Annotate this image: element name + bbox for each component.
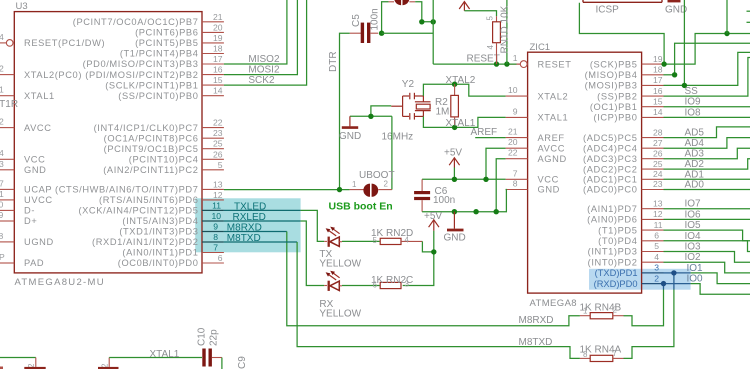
- wire TXLED (teal in band, green after): [224, 209, 301, 211]
- svg-text:22: 22: [213, 118, 223, 128]
- U3 right pin stubs: [202, 22, 224, 263]
- svg-text:AVCC: AVCC: [538, 143, 566, 153]
- svg-text:P: P: [0, 252, 5, 262]
- svg-text:8: 8: [0, 231, 4, 241]
- svg-text:XTAL1: XTAL1: [538, 113, 569, 123]
- svg-text:IO3: IO3: [685, 242, 702, 253]
- svg-text:AVCC: AVCC: [24, 123, 52, 133]
- svg-text:SS: SS: [685, 86, 699, 97]
- svg-text:6: 6: [218, 253, 223, 263]
- svg-text:C10: C10: [197, 327, 208, 346]
- crystal Y2: [391, 93, 431, 120]
- wire XTAL2 rail: [423, 84, 505, 96]
- wire AD0: [664, 189, 750, 191]
- svg-text:XTAL2: XTAL2: [446, 75, 476, 86]
- svg-text:4: 4: [486, 45, 495, 50]
- junction SCK top branch: [724, 31, 729, 36]
- svg-text:13: 13: [213, 179, 223, 189]
- junction AGND on rail: [494, 209, 499, 214]
- svg-text:1: 1: [0, 85, 4, 95]
- wire +5V drop to RX row: [403, 231, 434, 286]
- svg-text:XTAL1: XTAL1: [24, 91, 55, 101]
- svg-text:TXLED: TXLED: [234, 201, 266, 212]
- wire AREF: [475, 137, 505, 139]
- svg-text:4: 4: [405, 236, 410, 245]
- svg-text:(PDI/MOSI/PCINT2)PB2: (PDI/MOSI/PCINT2)PB2: [85, 70, 198, 80]
- svg-text:IO4: IO4: [685, 231, 702, 242]
- svg-text:4: 4: [0, 148, 4, 158]
- ZIC1 right pin numbers: [653, 54, 663, 262]
- junction PD0: [661, 281, 666, 286]
- wire XTAL1 bottom left (to cut crystal Y1): [0, 357, 36, 359]
- svg-text:8: 8: [213, 232, 218, 242]
- wire IO8: [664, 116, 750, 118]
- wire nub right edge upper: [747, 10, 750, 12]
- svg-text:23: 23: [653, 179, 663, 189]
- cut component body (bottom edge left): [24, 367, 45, 369]
- ZIC1 left pin names: [538, 59, 572, 194]
- svg-text:1: 1: [352, 180, 357, 189]
- wire MOSI: top edge to ZIC1 pin17 and right edge: [664, 0, 750, 85]
- svg-text:21: 21: [213, 12, 223, 22]
- svg-text:(INT5/AIN3)PD4: (INT5/AIN3)PD4: [122, 216, 198, 226]
- svg-text:U3: U3: [16, 1, 28, 12]
- svg-text:7: 7: [613, 349, 618, 358]
- svg-text:(AIN2/PCINT11)PC2: (AIN2/PCINT11)PC2: [103, 165, 198, 175]
- solder jumper RESET-EN (cut off at top): [389, 0, 416, 5]
- svg-text:14: 14: [213, 86, 223, 96]
- pin of cut component (crystal Y1 pin 2): [35, 358, 37, 367]
- svg-text:2: 2: [613, 305, 618, 314]
- svg-text:AD3: AD3: [685, 149, 705, 160]
- net labels IO1 IO0 (highlighted zone): [687, 263, 704, 285]
- svg-text:(SS/PCINT0)PB0: (SS/PCINT0)PB0: [118, 91, 198, 101]
- svg-text:2: 2: [0, 64, 4, 74]
- wire M8TXD (U3 side): [224, 241, 297, 243]
- svg-text:22p: 22p: [209, 329, 220, 346]
- svg-text:GND: GND: [24, 165, 46, 175]
- resistor RN4A: [580, 355, 624, 361]
- wire IO5: [664, 230, 750, 241]
- junction RESET vertical: [431, 19, 436, 24]
- junction RN1D bottom on RESET wire: [494, 61, 499, 66]
- svg-text:ZIC1: ZIC1: [530, 42, 551, 53]
- power +5V symbol (LED circuit): [429, 220, 439, 231]
- svg-text:DTR: DTR: [328, 51, 339, 72]
- svg-text:(OC1A/PCINT8)PC6: (OC1A/PCINT8)PC6: [104, 133, 199, 143]
- resistor RN4B: [580, 313, 624, 319]
- svg-text:17: 17: [213, 54, 223, 64]
- wire C10 right leg down: [221, 358, 223, 369]
- U3 highlighted pin numbers 11,10,9,8: [211, 200, 221, 252]
- svg-text:(PCINT9/OC1B)PC5: (PCINT9/OC1B)PC5: [104, 144, 199, 154]
- wire AD4: [664, 138, 750, 149]
- svg-text:SCK2: SCK2: [248, 75, 275, 86]
- svg-text:ATMEGA8: ATMEGA8: [530, 298, 578, 309]
- U3 right pin names: [55, 17, 198, 268]
- capacitor C10: [202, 349, 222, 367]
- wire XTAL1 bottom to C10: [109, 357, 202, 359]
- svg-text:(OC0B/INT0)PD0: (OC0B/INT0)PD0: [118, 258, 199, 268]
- svg-text:(PCINT7/OC0A/OC1C)PB7: (PCINT7/OC0A/OC1C)PB7: [73, 17, 199, 27]
- wire SCK branch to top edge: [726, 0, 728, 34]
- svg-text:20: 20: [213, 22, 223, 32]
- svg-text:(ADC4)PC4: (ADC4)PC4: [583, 143, 637, 153]
- svg-text:8: 8: [513, 179, 518, 189]
- svg-text:(INT0)PD2: (INT0)PD2: [588, 257, 638, 267]
- svg-text:(SCLK/PCINT1)PB1: (SCLK/PCINT1)PB1: [105, 80, 198, 90]
- svg-text:(T1)PD5: (T1)PD5: [598, 225, 637, 235]
- junction jumper leg: [419, 19, 424, 24]
- svg-text:MOSI2: MOSI2: [248, 64, 280, 75]
- svg-text:5: 5: [486, 16, 495, 21]
- wire IO9: [664, 106, 750, 108]
- junction AVCC drop: [483, 177, 488, 182]
- svg-text:VCC: VCC: [538, 175, 559, 185]
- svg-text:(SS)PB2: (SS)PB2: [597, 91, 637, 101]
- capacitor C6: [414, 191, 430, 212]
- corner mark bottom-left: [0, 367, 3, 369]
- wire MISO: right edge to ZIC1 pin18: [664, 43, 750, 75]
- svg-text:(ADC2)PC2: (ADC2)PC2: [583, 164, 637, 174]
- svg-text:M8RXD: M8RXD: [519, 315, 554, 326]
- svg-text:(AIN1)PD7: (AIN1)PD7: [587, 204, 637, 214]
- svg-text:(T1/PCINT4)PB4: (T1/PCINT4)PB4: [120, 49, 199, 59]
- svg-text:GND: GND: [444, 233, 466, 244]
- svg-text:GND: GND: [538, 185, 560, 195]
- svg-text:IO9: IO9: [685, 97, 702, 108]
- ZIC1 highlighted pin stubs 3,2: [642, 273, 664, 284]
- wire IO3: [664, 252, 750, 263]
- connector ICSP box (cut off at top): [583, 0, 662, 2]
- svg-text:100n: 100n: [433, 195, 455, 206]
- svg-text:M8TXD: M8TXD: [227, 233, 261, 244]
- U3 RESET inversion circle: [6, 40, 13, 47]
- svg-text:15: 15: [213, 75, 223, 85]
- svg-text:XTAL2: XTAL2: [538, 91, 569, 101]
- svg-text:13: 13: [653, 198, 663, 208]
- wire SS: [664, 58, 750, 97]
- svg-text:UVCC: UVCC: [24, 195, 53, 205]
- wire RN4A to PD1: [624, 290, 674, 359]
- highlight band TXLED/RXLED/M8RXD/M8TXD: [195, 198, 300, 252]
- U3 left pin stubs: [0, 43, 14, 263]
- svg-text:18: 18: [213, 44, 223, 54]
- pin of cut component (right): [108, 358, 110, 367]
- svg-text:(SCK)PB5: (SCK)PB5: [590, 59, 638, 69]
- svg-text:+5V: +5V: [444, 147, 462, 158]
- svg-text:12: 12: [653, 209, 663, 219]
- svg-text:(ICP)PB0: (ICP)PB0: [593, 113, 637, 123]
- svg-text:9: 9: [0, 210, 4, 220]
- svg-text:(AIN0/INT1)PD1: (AIN0/INT1)PD1: [122, 248, 198, 258]
- wire IO1: [691, 273, 750, 284]
- svg-text:15: 15: [653, 96, 663, 106]
- wire IO2: [664, 262, 750, 273]
- svg-text:7: 7: [513, 168, 518, 178]
- svg-text:10: 10: [508, 85, 518, 95]
- svg-text:0: 0: [0, 200, 4, 210]
- wire PD1 highlighted: [664, 273, 691, 290]
- svg-text:ATMEGA8U2-MU: ATMEGA8U2-MU: [15, 277, 105, 288]
- wire RN4B to PD0: [624, 290, 664, 326]
- U3 highlighted pin stubs 11,10,9,8: [202, 210, 224, 242]
- svg-text:5: 5: [654, 241, 659, 251]
- wire SCK2: [224, 0, 307, 85]
- svg-text:2: 2: [654, 273, 659, 283]
- power +5V symbol (top, for RN1D): [459, 2, 469, 11]
- svg-text:IO8: IO8: [685, 107, 702, 118]
- junction R2 bottom: [452, 125, 457, 130]
- wire IO4: [664, 241, 750, 252]
- svg-text:(RTS/AIN5/INT6)PD6: (RTS/AIN5/INT6)PD6: [99, 195, 198, 205]
- U3 left pin names: [24, 38, 105, 268]
- power +5V symbol (VCC rail): [449, 158, 459, 168]
- svg-text:(ADC5)PC5: (ADC5)PC5: [583, 133, 637, 143]
- svg-text:3: 3: [654, 263, 659, 273]
- LED RX (yellow): [324, 271, 342, 291]
- svg-text:5: 5: [373, 236, 378, 245]
- svg-text:(PCINT6)PB6: (PCINT6)PB6: [135, 28, 198, 38]
- svg-text:16: 16: [653, 86, 663, 96]
- svg-text:8: 8: [583, 350, 588, 359]
- ZIC1 right pin names: [583, 59, 637, 267]
- svg-text:9: 9: [213, 222, 218, 232]
- capacitor C5: [350, 23, 378, 43]
- highlight band PD1/PD0: [589, 269, 691, 290]
- svg-text:16MHz: 16MHz: [382, 132, 414, 143]
- wire AVCC drop: [486, 148, 506, 179]
- svg-text:D+: D+: [24, 216, 37, 226]
- svg-text:ICSP: ICSP: [596, 5, 620, 16]
- ZIC1 highlighted pin numbers 3,2: [654, 263, 659, 284]
- svg-text:UGND: UGND: [24, 237, 54, 247]
- junction +5V stem: [452, 177, 457, 182]
- svg-text:IO6: IO6: [685, 209, 702, 220]
- LED TX (yellow): [324, 227, 342, 247]
- resistor RN1D: [493, 16, 501, 64]
- svg-text:19: 19: [653, 54, 663, 64]
- svg-text:(MISO)PB4: (MISO)PB4: [585, 70, 638, 80]
- svg-text:4: 4: [654, 252, 659, 262]
- junction DTR/UBOOT: [337, 187, 342, 192]
- junction GND symbol stem: [452, 209, 457, 214]
- wire nub right edge lower: [747, 21, 750, 23]
- svg-text:(OC1)PB1: (OC1)PB1: [590, 102, 638, 112]
- svg-text:YELLOW: YELLOW: [319, 309, 361, 320]
- ZIC1 left pin numbers: [508, 53, 518, 188]
- junction PD1: [671, 270, 676, 275]
- svg-text:C5: C5: [351, 14, 362, 27]
- svg-text:11: 11: [654, 220, 663, 230]
- svg-text:UCAP: UCAP: [24, 185, 52, 195]
- svg-text:AD5: AD5: [685, 128, 705, 139]
- svg-text:26: 26: [213, 149, 223, 159]
- wire AD5: [664, 127, 750, 138]
- svg-text:(PCINT10)PC4: (PCINT10)PC4: [129, 155, 199, 165]
- svg-text:(PCINT5)PB5: (PCINT5)PB5: [135, 38, 198, 48]
- svg-text:7: 7: [213, 243, 218, 253]
- resistor R2: [451, 84, 459, 127]
- wire from top at RN1D right: [506, 0, 508, 64]
- solder jumper UBOOT: [350, 184, 392, 197]
- svg-text:(RXD1/AIN1/INT2)PD2: (RXD1/AIN1/INT2)PD2: [92, 237, 198, 247]
- wire GND rail: [422, 190, 506, 212]
- svg-text:RESET(PC1/DW): RESET(PC1/DW): [24, 38, 105, 48]
- junction SCK pin19: [661, 61, 666, 66]
- svg-text:USB boot En: USB boot En: [329, 200, 393, 212]
- svg-text:M8RXD: M8RXD: [227, 223, 262, 234]
- svg-text:IO2: IO2: [685, 252, 702, 263]
- svg-text:3: 3: [0, 159, 4, 169]
- ZIC1 RESET inversion circle: [520, 61, 527, 68]
- IC ZIC1 ATMEGA8 box: [528, 52, 642, 293]
- svg-text:C9: C9: [237, 356, 248, 369]
- svg-text:UBOOT: UBOOT: [359, 170, 395, 181]
- svg-text:YELLOW: YELLOW: [319, 258, 361, 269]
- wire SCK: ZIC1 pin19 to ICSP and right edge: [579, 3, 750, 64]
- svg-text:7: 7: [0, 179, 4, 189]
- junction RN2D/+5V: [431, 249, 436, 254]
- resistor RN2C: [380, 282, 401, 288]
- svg-text:28: 28: [653, 127, 663, 137]
- wire IO0: [691, 284, 750, 295]
- wire MISO2: [224, 0, 287, 64]
- wire AGND drop: [496, 159, 505, 212]
- svg-text:AREF: AREF: [538, 133, 565, 143]
- svg-text:2: 2: [0, 117, 4, 127]
- U3 left pin numbers (clipped at edge): [0, 32, 5, 262]
- svg-text:(INT4/ICP1/CLK0)PC7: (INT4/ICP1/CLK0)PC7: [94, 123, 199, 133]
- svg-text:21: 21: [508, 127, 518, 137]
- U3 right pin numbers: [213, 12, 223, 263]
- svg-text:GND: GND: [339, 131, 361, 142]
- svg-text:25: 25: [213, 139, 223, 149]
- ZIC1 right pin stubs: [642, 64, 664, 262]
- svg-text:17: 17: [653, 75, 663, 85]
- svg-text:IO7: IO7: [685, 199, 702, 210]
- wire +5V to RN1D: [464, 11, 496, 16]
- wire MOSI2: [224, 0, 298, 75]
- svg-text:18: 18: [653, 65, 663, 75]
- svg-text:1: 1: [583, 307, 588, 316]
- pin stub ZIC1 RESET: [517, 63, 521, 65]
- wire PD0 highlighted: [664, 284, 691, 290]
- svg-text:10: 10: [211, 211, 221, 221]
- wire RXLED: [224, 220, 301, 222]
- svg-text:23: 23: [213, 128, 223, 138]
- svg-text:AGND: AGND: [538, 154, 567, 164]
- junction C5/RESET-EN: [379, 31, 384, 36]
- IC U3 ATMEGA8U2-MU box: [14, 12, 202, 273]
- wire UBOOT/PD7 row: [224, 189, 350, 191]
- svg-text:6: 6: [654, 231, 659, 241]
- svg-text:1: 1: [513, 53, 518, 63]
- svg-text:12: 12: [213, 190, 223, 200]
- svg-text:PAD: PAD: [24, 258, 44, 268]
- svg-text:IO5: IO5: [685, 220, 702, 231]
- wire crystal left to GND junction: [371, 106, 391, 116]
- svg-text:+5V: +5V: [424, 211, 442, 222]
- svg-text:(PD0/MISO/PCINT3)PB3: (PD0/MISO/PCINT3)PB3: [83, 59, 199, 69]
- svg-text:5: 5: [218, 160, 223, 170]
- svg-text:XTAL1: XTAL1: [150, 349, 180, 360]
- ZIC1 highlighted pin names (TXD)PD1 (RXD)PD0: [594, 268, 638, 289]
- svg-text:MISO2: MISO2: [248, 54, 280, 65]
- svg-text:XT1R: XT1R: [0, 99, 18, 110]
- svg-text:RESET: RESET: [538, 59, 572, 69]
- wire +5V/VCC rail: [422, 178, 506, 180]
- wire TX LED to RN2D: [342, 240, 380, 242]
- svg-text:AD4: AD4: [685, 138, 705, 149]
- ZIC1 right net labels: [685, 86, 705, 263]
- svg-text:3: 3: [405, 280, 410, 289]
- wire AD2: [664, 159, 750, 169]
- svg-text:(MOSI)PB3: (MOSI)PB3: [585, 81, 638, 91]
- svg-text:VCC: VCC: [24, 155, 45, 165]
- svg-text:Y2: Y2: [402, 79, 415, 90]
- svg-text:9: 9: [513, 106, 518, 116]
- wire M8RXD (U3 side): [224, 231, 287, 233]
- svg-text:(TXD)PD1: (TXD)PD1: [595, 268, 638, 278]
- svg-text:1: 1: [0, 189, 4, 199]
- junction pull-up rail on RESET wire: [504, 61, 509, 66]
- junction crystal GND: [368, 114, 373, 119]
- ground symbol GND (ICSP, cut off): [668, 0, 681, 2]
- wire IO7: [664, 208, 750, 210]
- svg-text:(ADC0)PC0: (ADC0)PC0: [583, 185, 637, 195]
- svg-text:4: 4: [0, 32, 4, 42]
- svg-text:RN1D 10K: RN1D 10K: [500, 5, 511, 53]
- svg-text:25: 25: [653, 159, 663, 169]
- ground symbol GND (C6 rail): [447, 212, 464, 230]
- svg-text:XTAL2(PC0): XTAL2(PC0): [24, 70, 82, 80]
- svg-text:16: 16: [213, 65, 223, 75]
- svg-text:AD0: AD0: [685, 180, 705, 191]
- wire RESET net (vertical from top, to ZIC1 pin1): [382, 0, 517, 64]
- svg-text:(ADC1)PC1: (ADC1)PC1: [583, 175, 637, 185]
- wire RX LED to RN2C: [342, 285, 380, 287]
- svg-text:22: 22: [508, 148, 518, 158]
- resistor RN2D: [380, 238, 422, 244]
- svg-text:(AIN0)PD6: (AIN0)PD6: [587, 215, 637, 225]
- svg-text:(ADC3)PC3: (ADC3)PC3: [583, 154, 637, 164]
- junction mid rail: [473, 209, 478, 214]
- wire GND branch: [350, 115, 392, 117]
- svg-text:11: 11: [212, 200, 221, 210]
- svg-text:14: 14: [653, 107, 663, 117]
- svg-text:(INT1)PD3: (INT1)PD3: [588, 247, 638, 257]
- cut component body (bottom edge mid): [98, 367, 119, 369]
- svg-text:(TXD1/INT3)PD3: (TXD1/INT3)PD3: [119, 227, 198, 237]
- junction R2 top: [452, 82, 457, 87]
- svg-text:19: 19: [213, 33, 223, 43]
- svg-text:6: 6: [373, 280, 378, 289]
- wire AD3: [664, 148, 750, 159]
- junction MOSI pin17: [682, 83, 687, 88]
- ZIC1 left pin stubs: [506, 64, 528, 189]
- wire IO6: [664, 218, 750, 220]
- svg-text:1M: 1M: [436, 106, 450, 117]
- wire XTAL1 rail: [423, 116, 505, 127]
- svg-text:(CTS/HWB/AIN6/TO/INT7)PD7: (CTS/HWB/AIN6/TO/INT7)PD7: [55, 185, 198, 195]
- wire AD1: [664, 178, 750, 180]
- svg-text:26: 26: [653, 148, 663, 158]
- svg-text:20: 20: [508, 137, 518, 147]
- junction MISO pin18: [672, 72, 677, 77]
- svg-text:M8TXD: M8TXD: [519, 337, 553, 348]
- wire RESET-EN left leg: [382, 2, 389, 33]
